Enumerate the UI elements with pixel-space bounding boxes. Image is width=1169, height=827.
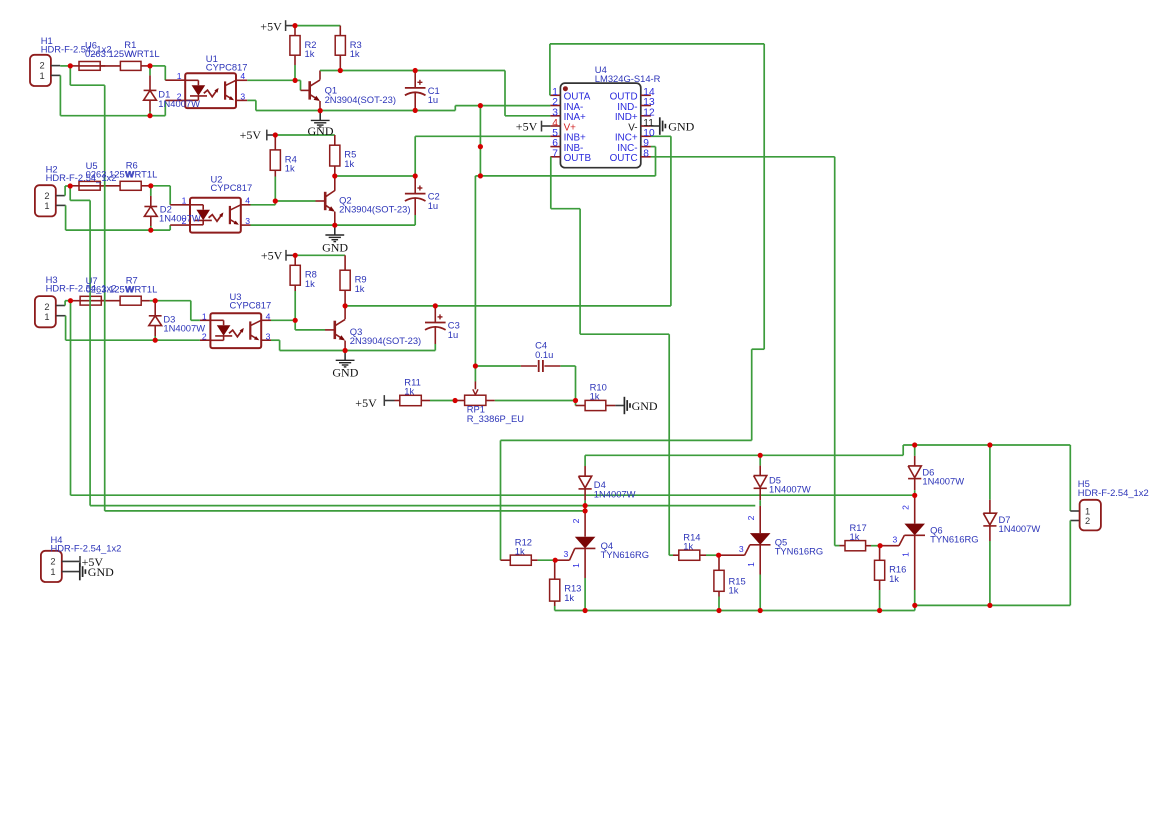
svg-text:1: 1 — [182, 196, 187, 206]
svg-text:OUTB: OUTB — [564, 153, 592, 164]
svg-text:GND: GND — [88, 565, 114, 579]
svg-text:LM324G-S14-R: LM324G-S14-R — [595, 73, 661, 84]
svg-text:1k: 1k — [850, 531, 860, 542]
svg-text:1: 1 — [202, 311, 207, 321]
svg-text:1: 1 — [1085, 506, 1090, 516]
svg-text:1k: 1k — [590, 391, 600, 402]
svg-text:4: 4 — [240, 71, 245, 81]
svg-text:1N4007W: 1N4007W — [922, 476, 964, 487]
svg-text:2: 2 — [202, 331, 207, 341]
svg-text:GND: GND — [332, 366, 358, 380]
svg-text:1k: 1k — [305, 48, 315, 59]
svg-text:1k: 1k — [515, 546, 525, 557]
svg-text:1u: 1u — [428, 94, 438, 105]
svg-text:3: 3 — [893, 534, 898, 544]
svg-text:+5V: +5V — [355, 396, 377, 410]
svg-text:1u: 1u — [428, 200, 438, 211]
svg-text:2N3904(SOT-23): 2N3904(SOT-23) — [325, 94, 396, 105]
svg-text:1: 1 — [44, 312, 49, 322]
svg-text:1k: 1k — [355, 283, 365, 294]
svg-text:2: 2 — [182, 216, 187, 226]
svg-text:1u: 1u — [448, 329, 458, 340]
svg-text:1N4007W: 1N4007W — [999, 523, 1041, 534]
svg-text:2: 2 — [40, 61, 45, 71]
svg-text:2: 2 — [44, 191, 49, 201]
svg-text:1: 1 — [177, 71, 182, 81]
svg-text:WRT1L: WRT1L — [126, 284, 158, 295]
svg-text:3: 3 — [739, 544, 744, 554]
svg-text:1: 1 — [44, 201, 49, 211]
svg-text:1N4007W: 1N4007W — [594, 488, 636, 499]
svg-text:1: 1 — [40, 71, 45, 81]
svg-text:TYN616RG: TYN616RG — [930, 534, 978, 545]
svg-text:2: 2 — [901, 505, 911, 510]
svg-text:2: 2 — [177, 91, 182, 101]
svg-text:7: 7 — [552, 149, 558, 160]
svg-text:1k: 1k — [285, 163, 295, 174]
svg-text:OUTC: OUTC — [610, 153, 638, 164]
svg-text:2: 2 — [571, 518, 581, 523]
svg-text:4: 4 — [245, 196, 250, 206]
svg-text:WRT1L: WRT1L — [128, 48, 160, 59]
svg-text:1k: 1k — [305, 278, 315, 289]
svg-text:1: 1 — [50, 567, 55, 577]
svg-text:1k: 1k — [729, 585, 739, 596]
svg-text:2: 2 — [746, 515, 756, 520]
svg-text:1N4007W: 1N4007W — [163, 323, 205, 334]
svg-text:2N3904(SOT-23): 2N3904(SOT-23) — [339, 204, 410, 215]
svg-text:CYPC817: CYPC817 — [206, 61, 248, 72]
svg-text:+5V: +5V — [516, 119, 538, 133]
svg-text:+5V: +5V — [261, 249, 283, 263]
svg-text:1k: 1k — [889, 573, 899, 584]
svg-text:CYPC817: CYPC817 — [211, 182, 253, 193]
svg-text:CYPC817: CYPC817 — [230, 300, 272, 311]
svg-text:1: 1 — [746, 562, 756, 567]
svg-text:TYN616RG: TYN616RG — [775, 546, 823, 557]
svg-text:1k: 1k — [344, 158, 354, 169]
svg-text:1: 1 — [901, 552, 911, 557]
svg-text:2: 2 — [1085, 516, 1090, 526]
svg-text:3: 3 — [266, 331, 271, 341]
svg-text:4: 4 — [266, 311, 271, 321]
svg-text:GND: GND — [322, 241, 348, 255]
svg-text:TYN616RG: TYN616RG — [601, 549, 649, 560]
svg-text:1: 1 — [571, 563, 581, 568]
svg-text:3: 3 — [240, 91, 245, 101]
svg-text:GND: GND — [668, 120, 694, 134]
svg-text:+5V: +5V — [260, 19, 282, 33]
svg-text:2N3904(SOT-23): 2N3904(SOT-23) — [350, 335, 421, 346]
svg-text:0.1u: 0.1u — [535, 349, 553, 360]
svg-text:GND: GND — [632, 399, 658, 413]
svg-text:2: 2 — [50, 557, 55, 567]
svg-text:1N4007W: 1N4007W — [769, 484, 811, 495]
svg-text:GND: GND — [308, 124, 334, 138]
svg-text:3: 3 — [245, 216, 250, 226]
svg-text:3: 3 — [564, 549, 569, 559]
svg-text:1k: 1k — [350, 48, 360, 59]
svg-text:R_3386P_EU: R_3386P_EU — [467, 413, 525, 424]
svg-text:1k: 1k — [564, 592, 574, 603]
svg-text:HDR-F-2.54_1x2: HDR-F-2.54_1x2 — [1078, 487, 1149, 498]
svg-text:HDR-F-2.54_1x2: HDR-F-2.54_1x2 — [51, 543, 122, 554]
svg-text:1k: 1k — [404, 386, 414, 397]
svg-text:1N4007W: 1N4007W — [159, 213, 201, 224]
svg-text:+5V: +5V — [240, 128, 262, 142]
svg-text:2: 2 — [44, 302, 49, 312]
svg-text:1k: 1k — [683, 541, 693, 552]
svg-text:WRT1L: WRT1L — [126, 169, 158, 180]
svg-text:8: 8 — [643, 149, 649, 160]
